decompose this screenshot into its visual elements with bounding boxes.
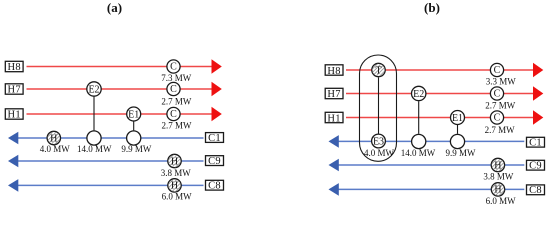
junction circle E1 on C1 (b) <box>450 134 464 148</box>
hot stream H1 wire (b) <box>346 117 534 119</box>
svg-text:H1: H1 <box>7 110 20 121</box>
exchanger E3 on C1 (b) <box>372 134 386 148</box>
svg-text:E1: E1 <box>452 113 463 124</box>
cold stream C1 wire (b) <box>338 140 525 142</box>
junction circle E1 on C1 (a) <box>127 131 141 145</box>
svg-text:2.7 MW: 2.7 MW <box>162 120 193 130</box>
svg-text:E2: E2 <box>88 84 99 95</box>
cold stream C9 arrow (b) <box>329 159 339 172</box>
svg-text:2.7 MW: 2.7 MW <box>485 125 516 135</box>
svg-text:H: H <box>171 156 178 167</box>
junction circle E2 on C1 (b) <box>412 134 426 148</box>
svg-text:C: C <box>494 65 501 76</box>
exchanger E2 (b) <box>412 86 426 100</box>
stream label box H1 (b) <box>325 112 343 122</box>
svg-text:C9: C9 <box>529 160 542 171</box>
svg-text:H7: H7 <box>7 85 20 96</box>
stream label box C1 (b) <box>527 137 545 147</box>
hot stream H8 arrow (a) <box>212 59 222 74</box>
svg-text:C8: C8 <box>529 185 542 196</box>
hot stream H7 arrow (b) <box>533 86 543 101</box>
junction circle E2 on C1 (a) <box>87 131 101 145</box>
hot stream H7 arrow (a) <box>212 82 222 97</box>
svg-text:7.3 MW: 7.3 MW <box>161 73 192 83</box>
cold stream C9 wire (a) <box>17 160 204 162</box>
stream label box H8 (b) <box>325 65 343 75</box>
cold stream C8 wire (a) <box>17 184 204 186</box>
svg-text:H: H <box>494 160 501 171</box>
svg-text:2.7 MW: 2.7 MW <box>485 101 516 111</box>
cold stream C1 wire (a) <box>17 137 204 139</box>
cold stream C1 arrow (a) <box>8 132 18 145</box>
svg-text:9.9 MW: 9.9 MW <box>446 148 477 158</box>
wire E1 to junction (a) <box>133 121 135 130</box>
cold stream C9 wire (b) <box>338 164 525 166</box>
exchanger E1 (a) <box>127 107 141 121</box>
exchanger E1 (b) <box>451 111 465 125</box>
svg-text:9.9 MW: 9.9 MW <box>121 144 152 154</box>
svg-text:C: C <box>494 89 501 100</box>
svg-text:3.8 MW: 3.8 MW <box>483 171 514 181</box>
svg-text:14.0 MW: 14.0 MW <box>401 148 436 158</box>
svg-text:3.3 MW: 3.3 MW <box>486 76 517 86</box>
svg-text:C: C <box>170 109 177 120</box>
svg-text:4.0 MW: 4.0 MW <box>364 148 395 158</box>
cooler C on H8 (b) <box>490 63 503 76</box>
hot stream H8 wire (a) <box>27 66 213 68</box>
stream label box H7 (a) <box>5 84 23 94</box>
heater H on C8 (b) <box>489 181 506 198</box>
svg-text:C1: C1 <box>208 133 221 144</box>
stream label box H8 (a) <box>5 61 23 71</box>
svg-text:H1: H1 <box>327 113 340 124</box>
svg-text:6.0 MW: 6.0 MW <box>486 196 517 206</box>
svg-text:C8: C8 <box>208 181 221 192</box>
wire T to E3 (b) <box>378 77 380 133</box>
svg-text:(a): (a) <box>107 0 122 15</box>
cold stream C8 wire (b) <box>338 188 525 190</box>
stream label box C1 (a) <box>206 133 224 143</box>
svg-text:2.7 MW: 2.7 MW <box>161 97 192 107</box>
turbine group stadium outline (b) <box>360 55 397 161</box>
svg-text:H: H <box>494 185 501 196</box>
hot stream H1 wire (a) <box>27 113 213 115</box>
svg-text:H7: H7 <box>327 89 340 100</box>
heater H on C8 (a) <box>166 177 183 194</box>
cooler C on H7 (a) <box>167 82 180 95</box>
heater H on C9 (a) <box>166 152 183 169</box>
svg-text:C: C <box>494 113 501 124</box>
exchanger E2 (a) <box>87 82 101 96</box>
heater H on C1 (a) <box>45 129 62 146</box>
svg-text:T: T <box>375 65 381 76</box>
svg-text:E1: E1 <box>128 109 139 120</box>
hot stream H1 arrow (a) <box>212 107 222 122</box>
turbine T on H8 (b) <box>370 61 387 78</box>
stream label box C8 (a) <box>206 180 224 190</box>
svg-text:C1: C1 <box>529 138 542 149</box>
hot stream H7 wire (b) <box>346 93 534 95</box>
cooler C on H1 (a) <box>167 107 180 120</box>
svg-text:H8: H8 <box>327 66 340 77</box>
svg-text:C9: C9 <box>208 156 221 167</box>
svg-text:E2: E2 <box>413 89 424 100</box>
heater H on C9 (b) <box>489 156 506 173</box>
svg-text:C: C <box>170 84 177 95</box>
svg-text:H: H <box>50 133 57 144</box>
svg-text:(b): (b) <box>424 0 440 15</box>
hot stream H8 wire (b) <box>346 69 534 71</box>
stream label box C9 (a) <box>206 156 224 166</box>
cold stream C8 arrow (b) <box>329 183 339 196</box>
cold stream C1 arrow (b) <box>329 135 339 148</box>
hot stream H8 arrow (b) <box>533 63 543 78</box>
stream label box H1 (a) <box>5 109 23 119</box>
svg-text:C: C <box>170 62 177 73</box>
svg-text:H8: H8 <box>7 62 20 73</box>
hot stream H1 arrow (b) <box>533 110 543 125</box>
wire E2 to junction (b) <box>418 101 420 134</box>
cold stream C9 arrow (a) <box>8 155 18 168</box>
stream label box C9 (b) <box>527 160 545 170</box>
stream label box H7 (b) <box>325 88 343 98</box>
wire E1 to junction (b) <box>457 125 459 134</box>
svg-text:14.0 MW: 14.0 MW <box>77 144 112 154</box>
stream label box C8 (b) <box>527 185 545 195</box>
svg-text:4.0 MW: 4.0 MW <box>40 144 71 154</box>
cold stream C8 arrow (a) <box>8 179 18 192</box>
cooler C on H7 (b) <box>490 87 503 100</box>
hot stream H7 wire (a) <box>27 88 213 90</box>
svg-text:6.0 MW: 6.0 MW <box>162 192 193 202</box>
cooler C on H8 (a) <box>167 60 180 73</box>
cooler C on H1 (b) <box>490 111 503 124</box>
svg-text:E3: E3 <box>373 136 384 147</box>
svg-text:3.8 MW: 3.8 MW <box>161 168 192 178</box>
wire E2 to junction (a) <box>93 97 95 131</box>
svg-text:H: H <box>171 181 178 192</box>
